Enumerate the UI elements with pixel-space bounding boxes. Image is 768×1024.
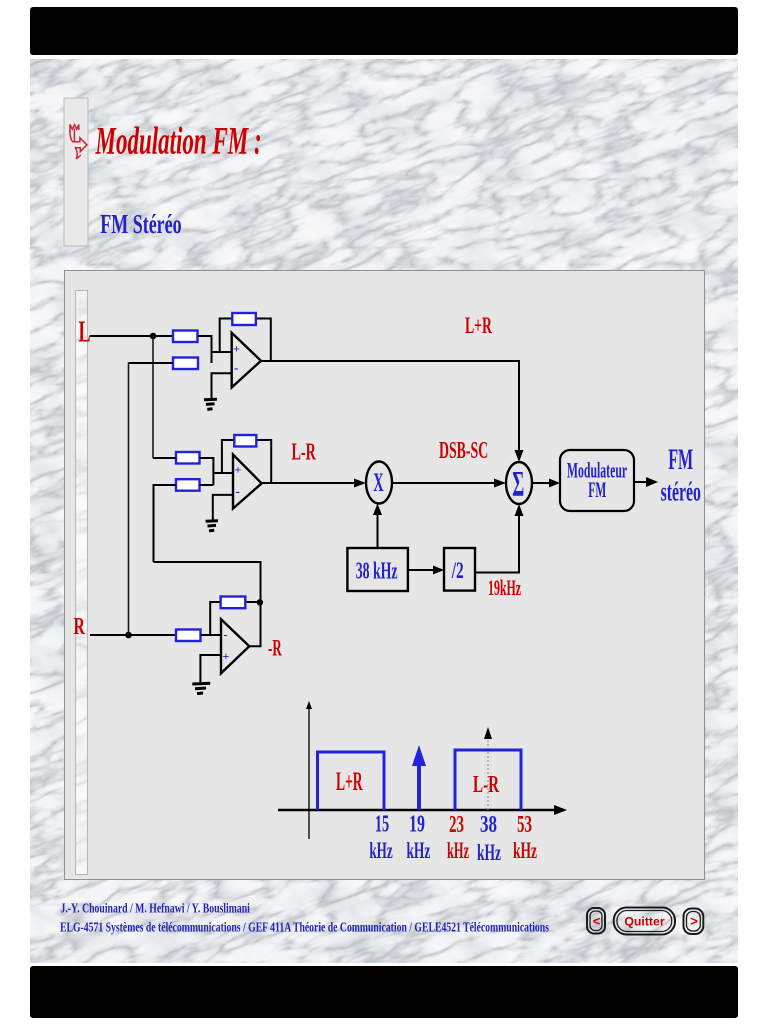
svg-text:kHz: kHz: [447, 838, 469, 863]
svg-text:23: 23: [449, 812, 464, 838]
svg-text:FM: FM: [668, 444, 693, 476]
svg-text:<: <: [593, 914, 601, 929]
node junction -R: [257, 599, 263, 605]
multiplier X: [366, 462, 392, 504]
svg-text:J.-Y. Chouinard / M. Hefnawi /: J.-Y. Chouinard / M. Hefnawi / Y. Bousli…: [61, 901, 251, 916]
arrowhead into sigma bottom: [515, 504, 524, 516]
svg-text:-: -: [234, 360, 238, 375]
wire output L+R: [261, 361, 519, 452]
svg-text:-R: -R: [268, 636, 282, 662]
arrowhead into /2: [433, 566, 444, 575]
top black letterbox bar: [30, 7, 738, 55]
38 kHz dotted line: [487, 740, 489, 810]
bottom black letterbox bar: [30, 966, 738, 1018]
svg-text:38 kHz: 38 kHz: [356, 559, 398, 585]
wire to + input: [212, 351, 232, 353]
svg-text:stéréo: stéréo: [661, 476, 701, 507]
svg-text:15: 15: [375, 811, 389, 838]
arrowhead into multiplier: [354, 479, 366, 488]
feedback loop wire: [220, 319, 271, 362]
ground symbol: [204, 399, 217, 409]
arrowhead into sigma top: [515, 450, 524, 462]
svg-text:53: 53: [517, 812, 532, 838]
feedback resistor R7: [221, 597, 246, 609]
op-amp U3 triangle: [221, 619, 249, 673]
wire R4 to bus: [200, 484, 214, 486]
wire L input: [90, 335, 173, 337]
wire - input to ground: [212, 373, 232, 398]
svg-text:R: R: [74, 614, 86, 640]
ground symbol: [206, 521, 218, 531]
feedback resistor R5: [234, 435, 256, 447]
svg-text:kHz: kHz: [407, 838, 431, 864]
svg-text:kHz: kHz: [477, 840, 501, 866]
y axis: [308, 707, 310, 839]
summer sigma: [506, 462, 532, 504]
ground symbol: [192, 683, 210, 693]
arrowhead output: [646, 477, 658, 487]
svg-text:-: -: [224, 628, 228, 642]
red ribbon arrow icon: [70, 125, 87, 160]
svg-text:-: -: [236, 484, 240, 499]
wire R2 left from R bus: [129, 362, 173, 364]
wire oscillator to X: [377, 513, 379, 548]
block Modulateur FM: [560, 450, 634, 511]
button prev: [587, 908, 605, 934]
wire + input to ground: [200, 655, 221, 682]
wire R6 to - input: [201, 634, 222, 636]
feedback loop wire: [210, 602, 260, 635]
svg-text:+: +: [233, 342, 240, 356]
oscillator 38 kHz box: [347, 548, 408, 591]
resistor R2: [173, 358, 198, 370]
resistor R3: [176, 452, 200, 464]
19 kHz pilot arrow: [417, 763, 421, 810]
svg-text:+: +: [223, 649, 230, 663]
button next: [684, 909, 704, 935]
svg-text:Modulation FM :: Modulation FM :: [95, 118, 262, 162]
svg-text:L+R: L+R: [336, 769, 363, 797]
arrowhead into X bottom: [373, 504, 382, 516]
svg-text:38: 38: [480, 811, 497, 838]
wire R input: [90, 634, 176, 636]
feedback loop wire: [222, 440, 271, 483]
svg-text:L: L: [79, 315, 91, 349]
wire oscillator to /2: [408, 569, 436, 571]
wire R bus up to top op-amp: [128, 363, 131, 635]
wire output L-R to multiplier: [262, 482, 356, 484]
wire modulator output: [634, 481, 648, 483]
wire output -R up and across to R4: [154, 562, 261, 646]
wire /2 to sigma: [475, 514, 519, 573]
svg-text:L-R: L-R: [292, 439, 317, 466]
title vertical bar: [64, 98, 88, 246]
L-R band: [455, 750, 521, 810]
feedback resistor: [232, 313, 256, 325]
node junction R: [125, 632, 132, 639]
svg-text:+: +: [235, 463, 242, 477]
op-amp U1 triangle: [232, 333, 261, 388]
diagram panel: [65, 271, 705, 880]
wire R1 to bus: [198, 336, 212, 363]
wire to + input: [213, 472, 233, 474]
wire R3 to bus: [200, 458, 214, 485]
wire -R feed to R4: [154, 485, 177, 562]
L+R band: [318, 752, 385, 810]
svg-text:>: >: [690, 914, 698, 929]
svg-text:FM: FM: [588, 477, 606, 502]
svg-text:ELG-4571 Systèmes de télécommu: ELG-4571 Systèmes de télécommunications …: [60, 920, 549, 935]
wire L bus to R3: [153, 457, 176, 459]
wire sigma to modulator: [532, 482, 552, 484]
wire L bus down to middle op-amp: [152, 336, 154, 458]
svg-text:Σ: Σ: [512, 465, 524, 504]
button Quitter: [614, 908, 675, 935]
arrowhead into sigma left: [494, 479, 506, 488]
svg-text:19kHz: 19kHz: [488, 575, 521, 600]
arrowhead into modulator: [549, 479, 560, 488]
wire - input to ground: [213, 495, 233, 520]
resistor R1: [173, 331, 198, 343]
svg-text:FM Stéréo: FM Stéréo: [100, 209, 181, 238]
svg-text:DSB-SC: DSB-SC: [439, 437, 488, 464]
svg-text:kHz: kHz: [513, 838, 537, 864]
svg-text:kHz: kHz: [369, 838, 392, 864]
svg-text:Quitter: Quitter: [624, 915, 665, 929]
svg-text:/2: /2: [451, 559, 464, 584]
svg-text:L-R: L-R: [473, 772, 499, 798]
svg-text:L+R: L+R: [465, 314, 492, 339]
node junction L: [150, 333, 157, 340]
op-amp U2 triangle: [233, 455, 262, 509]
x axis: [278, 809, 558, 812]
svg-text:X: X: [373, 467, 384, 497]
wire X to sigma: [392, 482, 496, 484]
divider /2 box: [444, 548, 475, 591]
resistor R6: [176, 630, 201, 642]
svg-text:19: 19: [409, 811, 425, 837]
resistor R4: [176, 479, 200, 491]
